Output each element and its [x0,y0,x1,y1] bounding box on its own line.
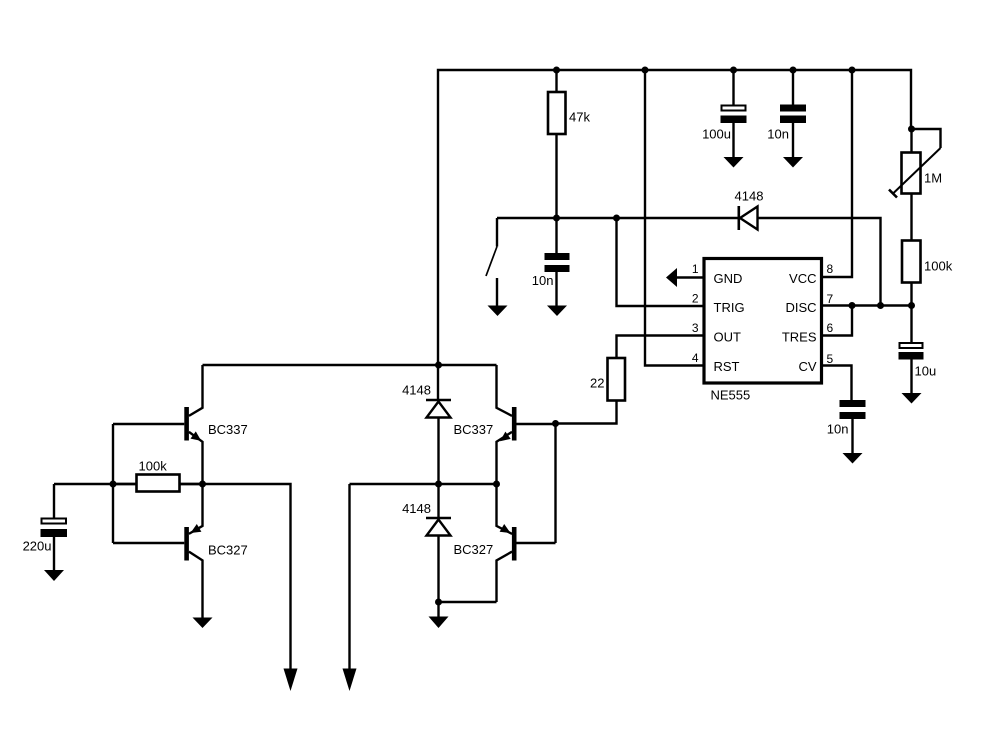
op-amp U1 NE555 box [704,259,822,403]
diode D1 4148 (upper vertical) [402,383,451,418]
svg-text:4: 4 [692,351,699,365]
svg-text:5: 5 [827,352,834,366]
svg-text:2: 2 [692,292,699,306]
svg-text:4148: 4148 [402,501,431,516]
wire emitter row y484 middle segment [350,483,497,485]
capacitor C4 10u [899,343,937,394]
junction dot VCC rail / 100u [730,67,737,74]
wire 220u top lead [53,484,55,518]
ground below Q3 [193,618,213,629]
diode D2 4148 (lower vertical) [402,501,451,536]
svg-text:1: 1 [692,262,699,276]
svg-text:7: 7 [827,292,834,306]
resistor R2 100k (right) [902,241,953,283]
svg-text:OUT: OUT [714,330,742,345]
wire R22 to bases node [556,401,617,424]
svg-text:1M: 1M [924,171,942,186]
pin 1 stub with GND arrow [666,268,704,287]
wire middle outpage arrow line [348,484,350,669]
wire pot top stub [910,129,912,153]
ground below C5 [843,453,863,464]
wire switch row to diode anode [497,217,739,219]
svg-text:TRIG: TRIG [714,300,745,315]
junction dot Q2 Q4 bases [552,420,559,427]
ground below C4 [902,393,922,404]
junction dot mid emitters [493,481,500,488]
wire 100k to DISC row [910,283,912,306]
capacitor C2 100u [702,70,746,158]
resistor R4 100k (left horizontal) [137,459,180,492]
svg-text:BC337: BC337 [208,422,248,437]
off-page arrow left [284,669,298,692]
svg-text:RST: RST [714,359,740,374]
switch S1 [486,218,497,306]
svg-text:3: 3 [692,321,699,335]
svg-text:10n: 10n [767,127,789,142]
junction dot pot wiper [908,126,915,133]
ground below C1 [547,306,567,317]
svg-text:100k: 100k [139,459,168,474]
svg-text:100u: 100u [702,127,731,142]
svg-text:DISC: DISC [785,300,816,315]
wire RST rail [645,70,704,366]
wire bases tie middle [554,424,556,544]
junction dot DISC/divider [908,302,915,309]
diode D3 4148 (horizontal) [735,189,764,231]
resistor R3 22 [590,358,625,401]
svg-text:10n: 10n [827,422,849,437]
capacitor C6 220u [23,519,67,571]
wire pot to 100k [910,194,912,241]
svg-text:220u: 220u [23,539,52,554]
junction dot node 47k/10n/switch [553,215,560,222]
junction dot VCC rail / RST rail [642,67,649,74]
svg-text:100k: 100k [924,259,953,274]
transistor Q2 BC337 (middle top) [454,365,556,484]
transistor Q1 BC337 (left top) [184,365,247,484]
wire DISC to 10u [910,306,912,343]
svg-text:BC327: BC327 [208,543,248,558]
wire top power rail [438,70,911,400]
ground below switch [488,306,508,317]
svg-text:10n: 10n [532,273,554,288]
wire base tie left [112,424,114,543]
wire CV down [822,366,852,401]
wire TRES jog [822,306,853,336]
svg-text:47k: 47k [569,110,590,125]
wire Q3 base [113,542,184,544]
capacitor C1 10n (below 47k) [532,218,570,306]
resistor R1 47k [548,92,590,134]
svg-text:22: 22 [590,376,604,391]
wire 47k top stub [555,70,557,92]
transistor Q4 BC327 (middle bottom) [454,484,556,602]
ground below C3 [783,157,803,168]
junction dot left emitters [199,481,206,488]
junction dot mid row / diode chain [435,481,442,488]
svg-text:10u: 10u [915,364,937,379]
svg-text:4148: 4148 [735,189,764,204]
wire pot wiper [912,129,941,148]
junction dot DISC/TRES [849,302,856,309]
wire DISC row [822,304,912,306]
junction dot node TRIG [613,215,620,222]
transistor Q3 BC327 (left bottom) [184,484,247,618]
wire TRIG from row down [617,218,705,306]
svg-text:BC337: BC337 [454,422,494,437]
wire rail below diode2 [437,537,439,603]
junction dot collector row / diode chain [435,362,442,369]
junction dot VCC rail / 47k [553,67,560,74]
svg-text:CV: CV [798,359,816,374]
svg-text:6: 6 [827,321,834,335]
wire VCC rail [822,70,853,277]
svg-text:8: 8 [827,262,834,276]
wire 100k left leads [113,483,137,485]
junction dot left base tie [110,481,117,488]
svg-text:GND: GND [714,271,743,286]
ground below C6 [44,570,64,581]
junction dot gnd node [435,599,442,606]
svg-text:NE555: NE555 [711,388,751,403]
svg-text:4148: 4148 [402,383,431,398]
wire diode cathode to DISC corner [758,218,881,306]
svg-text:TRES: TRES [782,330,817,345]
junction dot VCC rail / pin8 [849,67,856,74]
off-page arrow middle [343,669,357,692]
junction dot DISC/diode [877,302,884,309]
svg-text:BC327: BC327 [454,542,494,557]
wire emitter row y484 left segment [54,484,291,669]
ground below middle stage [429,602,449,628]
ground below C2 [724,157,744,168]
svg-text:VCC: VCC [789,271,816,286]
capacitor C3 10n (top) [767,70,806,158]
wire collector row y365 [203,364,497,366]
capacitor C5 10n (at CV) [827,400,866,454]
wire 47k bottom to row [555,134,557,218]
wire Q1 base [113,423,184,425]
wire OUT to R22 [617,336,705,359]
wire rail between diodes [437,418,439,519]
junction dot VCC rail / 10n [790,67,797,74]
wire bottom gnd row [439,601,497,603]
potentiometer P1 1M [889,148,942,198]
